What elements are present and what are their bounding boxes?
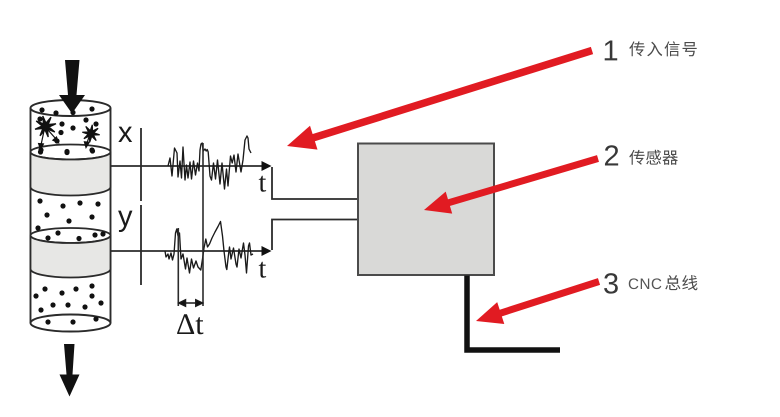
label 3 text CNC	[629, 278, 639, 289]
callout arrow 3	[494, 282, 599, 316]
force arrow top	[59, 60, 85, 114]
t label y	[259, 262, 266, 278]
force arrow bottom	[60, 344, 80, 397]
callout arrow 2	[442, 159, 598, 205]
particle dots section 1	[37, 116, 98, 154]
y axis tick line	[140, 205, 142, 285]
delta-t label	[177, 314, 194, 334]
AE source star left	[35, 116, 56, 137]
wire y-signal to box	[272, 220, 358, 251]
delta-t left marker	[177, 228, 179, 306]
label 2 text 传感器	[629, 150, 644, 165]
x axis label	[118, 127, 132, 142]
particle dots section 2	[35, 198, 100, 237]
crack arrow from right star	[84, 137, 89, 148]
particle dots top face	[39, 106, 94, 115]
label 1 number	[605, 40, 618, 60]
particle dots section 3	[33, 283, 103, 324]
label 2 number	[605, 145, 618, 165]
AE source star right	[82, 125, 99, 142]
sensor electronics box	[358, 144, 494, 276]
crack arrow right-down	[48, 130, 59, 143]
t label x	[259, 176, 266, 192]
CNC bus line	[467, 276, 560, 351]
cylinder top ellipse	[31, 100, 111, 116]
wire x-signal to box	[272, 167, 358, 199]
y signal baseline with arrow	[111, 250, 267, 252]
y axis label	[118, 211, 132, 232]
particle dots band2 face	[45, 231, 105, 241]
particle dots band1 face	[38, 148, 95, 155]
crack arrow left-down	[39, 131, 44, 150]
sensor ring lower (gray band 2)	[31, 228, 111, 243]
x axis tick line	[140, 128, 142, 201]
callout arrow 1	[306, 51, 592, 141]
sensor ring upper (gray band 1)	[31, 145, 111, 160]
delta-t double arrow	[179, 300, 203, 306]
label 1 text 传入信号	[629, 41, 644, 56]
event time line	[202, 143, 204, 306]
cylinder bottom ellipse	[31, 315, 111, 332]
y waveform	[165, 222, 253, 274]
x signal baseline with arrow	[111, 165, 267, 167]
x waveform	[168, 136, 251, 189]
label 3 number	[604, 273, 618, 294]
specimen cylinder body	[31, 108, 111, 323]
label 3 text 总线	[665, 275, 680, 290]
